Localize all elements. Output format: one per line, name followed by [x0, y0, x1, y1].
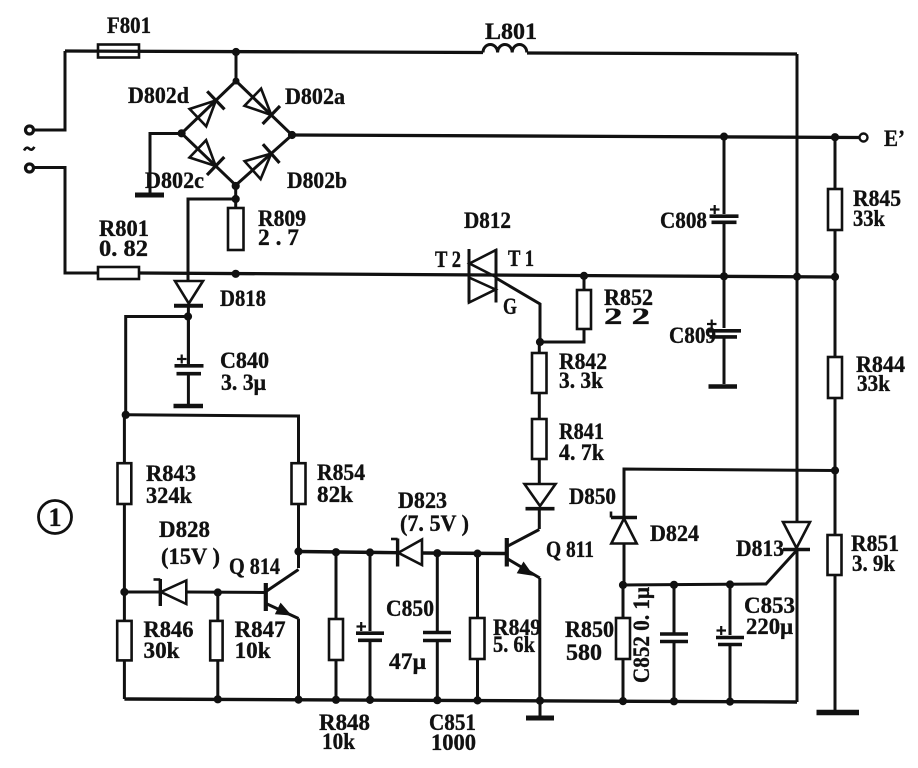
svg-text:0. 82: 0. 82 — [99, 236, 148, 261]
wire D824 anode to gate RC rail — [623, 544, 626, 586]
label D802c — [145, 168, 204, 193]
wire bridge top corner stub — [235, 52, 238, 81]
ground below C840 — [174, 404, 204, 409]
resistor R850 — [616, 618, 630, 659]
wire R847 column — [216, 593, 219, 700]
label D813 — [736, 536, 784, 561]
svg-text:D823: D823 — [398, 488, 447, 513]
svg-text:D824: D824 — [650, 521, 699, 546]
wire crowbar gate rail with rise to D813 gate — [623, 551, 797, 586]
svg-text:D802d: D802d — [128, 83, 189, 108]
capacitor C853 electrolytic — [716, 626, 744, 645]
svg-text:D850: D850 — [569, 484, 616, 509]
junction bridge top corner — [233, 78, 239, 84]
junction bottom rail at C852 — [670, 698, 677, 705]
svg-text:F801: F801 — [107, 13, 151, 38]
capacitor C851 — [423, 633, 451, 641]
junction T1 rail at R852 — [580, 272, 587, 279]
svg-text:3. 3μ: 3. 3μ — [221, 370, 266, 395]
wire Q811 collector chain to D850 R841 R842 — [538, 342, 541, 529]
junction B+ rail at C808 — [720, 133, 727, 140]
label R846 value 30k — [144, 617, 194, 663]
wire D818 cathode to C840 and left branch — [126, 306, 189, 415]
junction bottom rail at R849 — [474, 697, 481, 704]
svg-text:580: 580 — [566, 640, 602, 665]
wire bridge bottom to R809 and D818 branch — [188, 186, 236, 281]
pin label T2 — [435, 247, 461, 272]
diode D802c (bridge, left to bottom) — [190, 140, 225, 175]
label D824 — [650, 521, 699, 546]
svg-text:D813: D813 — [736, 536, 784, 561]
label L801 — [485, 19, 537, 44]
junction bottom rail at R847 — [214, 696, 221, 703]
label C808 — [660, 208, 707, 233]
junction bottom rail at C851 — [434, 697, 441, 704]
label D802a — [285, 84, 345, 109]
junction base rail at R848 — [332, 549, 339, 556]
junction error-amp top rail left — [122, 411, 129, 418]
resistor R843 — [118, 463, 132, 504]
label D823 value 7.5V — [398, 488, 469, 536]
wire bridge edge bottom-left — [182, 133, 236, 185]
wire bridge edge top-right — [236, 81, 292, 135]
junction T1 rail at C809 — [720, 273, 727, 280]
wire bridge edge bottom-right — [236, 135, 292, 185]
label R844 value 33k — [856, 352, 905, 396]
svg-text:4. 7k: 4. 7k — [559, 440, 604, 465]
svg-text:(7. 5V ): (7. 5V ) — [400, 511, 469, 536]
wire triac gate lead — [496, 278, 540, 342]
resistor R841 — [532, 419, 547, 459]
resistor R846 — [117, 621, 131, 661]
label D828 value 15V — [159, 517, 220, 569]
wire gate node to R852 bottom — [540, 329, 584, 342]
junction triac gate node — [536, 338, 543, 345]
junction bridge bottom corner — [232, 182, 239, 202]
svg-text:33k: 33k — [853, 206, 885, 231]
resistor R854 — [292, 463, 306, 504]
resistor R848 — [329, 619, 343, 660]
wire regulator base rail to Q811 — [299, 552, 506, 554]
svg-text:D802b: D802b — [287, 168, 347, 193]
svg-text:10k: 10k — [235, 638, 271, 663]
wire Q811 emitter drop to ground rail — [538, 578, 541, 701]
label R847 value 10k — [235, 617, 286, 663]
capacitor C850 electrolytic — [356, 622, 384, 640]
wire sense rail R844 junction to D824 — [624, 469, 835, 517]
resistor R842 — [532, 353, 547, 393]
label R854 value 82k — [317, 460, 365, 507]
junction bottom rail at R848 — [332, 696, 339, 703]
junction B+ rail at R845 — [831, 134, 838, 141]
junction T1 rail at R844 — [831, 273, 838, 280]
wire R845 R844 R851 divider column — [834, 137, 837, 711]
svg-text:1000: 1000 — [431, 730, 476, 755]
svg-text:R850: R850 — [565, 617, 614, 642]
diode D802d (bridge, lower-left to top) — [190, 91, 225, 126]
diode D850 — [525, 484, 556, 509]
junction R854 bottom feeding base line of Q811 — [295, 548, 302, 555]
diode D802a (bridge, top to right) — [245, 89, 281, 124]
wire Q814 emitter drop — [297, 619, 300, 700]
ground below C809 — [709, 384, 738, 389]
wire R852 top to T1 rail — [583, 276, 586, 290]
svg-text:D812: D812 — [464, 208, 511, 233]
wire R850 column — [622, 585, 625, 701]
label R801 value 0.82 — [99, 216, 149, 261]
svg-text:47μ: 47μ — [389, 649, 426, 674]
resistor R849 — [470, 618, 485, 659]
ground at bridge left arm — [135, 193, 164, 198]
junction bottom rail at Q814 emitter — [295, 696, 302, 703]
wire T2 rail from R801 to triac and on to R845 column — [139, 273, 835, 277]
svg-text:C852 0. 1μ: C852 0. 1μ — [629, 587, 654, 683]
label R841 value 4.7k — [559, 419, 604, 465]
label C840 value 3.3u — [220, 348, 269, 395]
wire B+ rail from bridge right corner to E-prime — [292, 135, 860, 138]
junction gate rail at R850 — [619, 581, 626, 588]
wire right vertical drop from top rail to D813 anode — [796, 54, 799, 522]
label C851 value 1000 — [429, 710, 476, 755]
junction base rail at R849 — [474, 550, 481, 557]
label R851 value 3.9k — [851, 531, 899, 576]
junction bottom rail at C853 — [726, 698, 733, 705]
wire C852 column — [673, 585, 676, 702]
ground below Q811 emitter — [526, 701, 554, 718]
wire left AC vertical to top rail — [34, 51, 65, 130]
svg-text:(15V ): (15V ) — [161, 544, 220, 569]
junction at R847 top — [214, 589, 221, 596]
wire bottom ground rail — [124, 699, 797, 702]
label Q811 — [546, 537, 594, 562]
fuse F801 — [98, 45, 139, 58]
svg-text:10k: 10k — [322, 729, 355, 754]
diode D823 zener — [391, 539, 422, 567]
wire C840 lower stem to ground — [187, 375, 190, 404]
svg-text:D828: D828 — [159, 517, 210, 542]
wire R849 column — [476, 554, 479, 701]
wire R854 column to Q814 collector — [297, 504, 300, 568]
triac D812 — [469, 249, 496, 303]
label C853 value 220u — [744, 593, 795, 639]
AC input terminals with tilde — [24, 126, 34, 172]
wire bridge edge top-left — [182, 81, 236, 133]
label C850 value 47u — [386, 596, 434, 674]
label R848 value 10k — [319, 710, 370, 754]
resistor R847 — [210, 621, 222, 661]
capacitor C840 electrolytic — [175, 317, 204, 374]
wire lower AC terminal to R801 — [34, 168, 98, 274]
svg-text:C808: C808 — [660, 208, 707, 233]
label D812 — [464, 208, 511, 233]
capacitor C809 electrolytic — [707, 320, 742, 337]
wire R848 column — [335, 552, 338, 700]
label D802b — [287, 168, 347, 193]
capacitor C808 electrolytic — [710, 205, 739, 222]
resistor R809 — [228, 208, 244, 250]
svg-text:3. 9k: 3. 9k — [852, 551, 895, 576]
svg-text:220μ: 220μ — [746, 614, 793, 639]
label R842 value 3.3k — [559, 349, 607, 393]
junction bottom rail at Q811 emitter — [536, 697, 543, 704]
label R849 value 5.6k — [493, 615, 541, 657]
junction below D818 — [184, 313, 191, 320]
junction T1 rail at right drop — [793, 273, 800, 280]
junction bridge right corner — [288, 131, 295, 138]
svg-text:5. 6k: 5. 6k — [493, 632, 535, 657]
label D818 — [220, 286, 266, 311]
junction base rail at C850 — [366, 549, 373, 556]
wire C853 column — [729, 585, 732, 702]
junction bottom rail at R850 — [619, 698, 626, 705]
svg-text:Q 811: Q 811 — [546, 537, 594, 562]
svg-text:D818: D818 — [220, 286, 266, 311]
wire error-amp top rail — [126, 415, 299, 463]
figure number 1 circled — [39, 501, 72, 534]
svg-text:33k: 33k — [857, 371, 890, 396]
svg-text:T 2: T 2 — [435, 247, 461, 272]
wire bridge left corner to ground — [150, 134, 182, 194]
resistor R851 — [828, 535, 842, 575]
wire C850 column — [369, 553, 372, 700]
diode D828 zener — [154, 579, 187, 606]
wire top rail from AC input via F801 and L801 to right corner — [65, 51, 797, 54]
inductor L801 — [483, 44, 527, 52]
label C852 value 0.1u rotated — [629, 587, 654, 683]
wire C851 column — [436, 553, 439, 700]
pin label T1 — [508, 246, 534, 271]
wire D813 cathode drop to ground rail — [796, 549, 799, 702]
label R850 value 580 — [565, 617, 614, 665]
transistor Q811 — [507, 530, 540, 579]
diode D818 — [174, 281, 203, 306]
wire C809 column to ground — [723, 276, 726, 384]
svg-text:324k: 324k — [146, 483, 192, 508]
resistor R844 — [828, 357, 842, 398]
junction sense rail at R844 R851 — [831, 467, 838, 474]
svg-text:30k: 30k — [144, 638, 180, 663]
svg-text:2 . 7: 2 . 7 — [258, 225, 299, 250]
transistor Q814 — [266, 570, 299, 619]
node E' output terminal — [860, 126, 906, 151]
label D850 — [569, 484, 616, 509]
svg-text:D802a: D802a — [285, 84, 345, 109]
diode D802b (bridge, bottom to right) — [245, 144, 280, 179]
junction gate rail at C853 — [726, 581, 733, 588]
label R852 value 2.2 — [604, 285, 653, 329]
svg-text:C850: C850 — [386, 596, 434, 621]
label D802d — [128, 83, 189, 108]
svg-text:T 1: T 1 — [508, 246, 534, 271]
svg-text:E’: E’ — [884, 126, 905, 151]
thyristor D813 — [783, 522, 810, 550]
svg-text:C809: C809 — [669, 323, 716, 348]
wire D828 to Q814 base — [124, 591, 265, 595]
label R845 value 33k — [853, 186, 901, 231]
pin label G — [503, 294, 517, 319]
label Q814 — [229, 554, 280, 579]
junction base rail at C851 — [434, 550, 441, 557]
junction T2 rail at R809 — [232, 270, 239, 277]
wire C808 column — [723, 137, 726, 277]
resistor R801 — [98, 267, 139, 279]
junction at D828 anode — [121, 588, 128, 595]
diode D824 zener — [611, 512, 637, 544]
ground below R851 — [817, 710, 860, 716]
junction bottom rail at C850 — [366, 696, 373, 703]
svg-text:G: G — [503, 294, 517, 319]
label R843 value 324k — [146, 461, 196, 508]
svg-text:D802c: D802c — [145, 168, 204, 193]
svg-text:3. 3k: 3. 3k — [559, 368, 603, 393]
junction top rail at bridge — [232, 48, 239, 55]
svg-text:2 2: 2 2 — [604, 304, 650, 329]
label R809 value 2.7 — [258, 206, 306, 250]
label C809 — [669, 323, 716, 348]
wire R843 column — [123, 415, 126, 592]
junction bridge left corner — [178, 130, 185, 137]
resistor R845 — [828, 189, 842, 230]
svg-text:Q 814: Q 814 — [229, 554, 280, 579]
junction gate rail at C852 — [670, 581, 677, 588]
svg-text:82k: 82k — [317, 482, 353, 507]
svg-text:1: 1 — [49, 503, 62, 532]
label F801 — [107, 13, 151, 38]
capacitor C852 — [660, 634, 688, 642]
wire R846 column to bottom rail — [123, 592, 126, 699]
svg-text:L801: L801 — [485, 19, 537, 44]
resistor R852 — [577, 290, 591, 329]
